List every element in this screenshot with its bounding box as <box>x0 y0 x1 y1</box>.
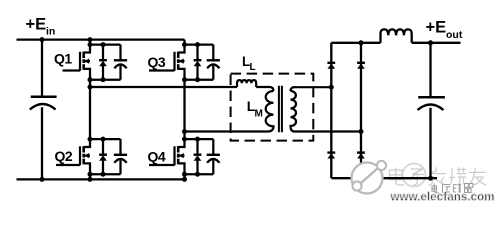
svg-text:+E: +E <box>26 16 47 34</box>
transistor Q3 MOSFET <box>149 45 185 80</box>
wire bridge left leg <box>330 43 332 178</box>
junction dot Q4 source rail <box>182 177 187 182</box>
top bar of Q1 <box>90 43 121 45</box>
transistor Q2 MOSFET <box>56 139 90 174</box>
top bar of Q4 <box>185 138 214 140</box>
wire Q4 source to rail <box>183 174 185 179</box>
inductor LL leakage <box>237 80 256 87</box>
junction dot Q2 source rail <box>88 177 93 182</box>
bottom bar of Q2 <box>90 173 121 175</box>
inductor output filter <box>381 29 412 42</box>
wire output line <box>412 42 461 44</box>
svg-text:M: M <box>255 109 263 120</box>
wire Q3 drain rail drop <box>183 40 185 45</box>
transistor Q4 MOSFET <box>149 139 185 174</box>
svg-text:Q2: Q2 <box>55 148 73 164</box>
snubber capacitor of Q1 <box>114 45 127 80</box>
junction dot node B primary tap <box>182 129 187 134</box>
bottom bar of Q4 <box>185 173 214 175</box>
wire secondary top entry <box>291 87 295 91</box>
wire LL to primary <box>256 87 273 91</box>
diode D2 bridge upper right <box>357 62 365 64</box>
top bar of Q2 <box>90 138 121 140</box>
junction dot output cap bottom <box>428 176 433 181</box>
watermark text dianzifashaoyou <box>390 168 405 186</box>
transistor Q1 MOSFET <box>63 45 91 80</box>
diode D3 bridge lower left <box>327 151 335 153</box>
transformer primary winding LM <box>266 91 274 132</box>
body diode of Q3 <box>194 45 202 80</box>
watermark small text dianyuanlianmeng <box>432 184 439 194</box>
wire primary bottom to node B <box>185 130 269 132</box>
junction dot input cap top <box>40 37 45 42</box>
transformer secondary winding <box>291 91 297 132</box>
svg-text:Q3: Q3 <box>148 54 166 70</box>
snubber capacitor of Q4 <box>207 139 220 174</box>
top bar of Q3 <box>185 43 214 45</box>
wire Q2 source to rail <box>89 174 91 179</box>
capacitor input filter <box>30 40 57 180</box>
capacitor output filter <box>418 43 445 178</box>
bottom bar of Q3 <box>185 79 214 81</box>
junction dot output cap top <box>428 40 433 45</box>
body diode of Q4 <box>194 139 202 174</box>
dashed box transformer model <box>231 74 314 141</box>
svg-text:L: L <box>250 62 256 73</box>
snubber capacitor of Q2 <box>114 139 127 174</box>
svg-text:in: in <box>46 26 55 38</box>
wire Q1 drain to rail <box>89 40 91 45</box>
junction dot Q1 drain at rail <box>88 37 93 42</box>
wire node B vertical Q3-Q4 <box>183 80 185 139</box>
junction dot bridge top right leg <box>359 40 364 45</box>
wire node A to transformer with inductor LL <box>90 86 237 88</box>
snubber capacitor of Q3 <box>207 45 220 80</box>
svg-text:www.elecfans.com: www.elecfans.com <box>390 192 495 204</box>
watermark logo circle <box>352 161 387 194</box>
svg-text:+E: +E <box>426 18 447 36</box>
diode D4 bridge lower right <box>357 151 365 153</box>
svg-text:Q4: Q4 <box>148 148 166 164</box>
junction dot input cap bottom <box>40 177 45 182</box>
wire top input rail <box>17 38 185 40</box>
svg-text:out: out <box>446 29 463 41</box>
junction dots of Q2 <box>88 137 106 177</box>
junction dot secondary top at left leg <box>329 85 334 90</box>
junction dots of Q3 <box>182 42 200 82</box>
wire bottom rail <box>17 178 186 180</box>
junction dots of Q4 <box>182 137 200 177</box>
diode D1 bridge upper left <box>327 62 335 64</box>
body diode of Q1 <box>99 45 107 80</box>
body diode of Q2 <box>99 139 107 174</box>
junction dot node A <box>88 85 93 90</box>
watermark faint ring <box>403 164 426 187</box>
wire bridge right leg <box>360 43 362 178</box>
wire bridge bottom rail <box>332 177 438 179</box>
svg-text:Q1: Q1 <box>54 50 72 66</box>
wire secondary bottom to bridge <box>293 130 361 132</box>
transformer core <box>279 86 282 133</box>
wire node A vertical Q1-Q2 <box>89 80 91 139</box>
bottom bar of Q1 <box>90 79 121 81</box>
wire secondary top to bridge <box>293 86 331 88</box>
wire bridge top rail <box>331 42 380 44</box>
junction dot secondary bottom at right leg <box>359 129 364 134</box>
junction dots of Q1 <box>88 42 106 82</box>
